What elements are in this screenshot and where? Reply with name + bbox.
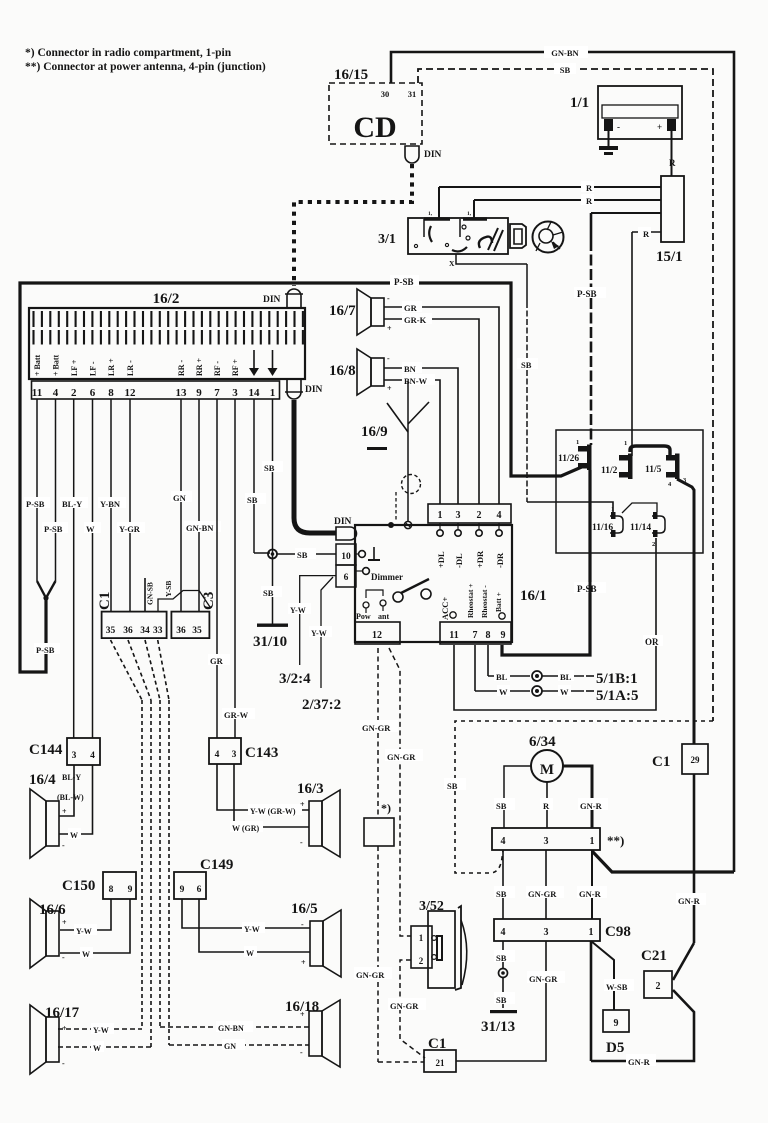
dashed wire GN-BN to 16/18 — [160, 1026, 309, 1028]
wire Y-W C149 to 16/5 — [182, 899, 310, 928]
junction SB wires — [268, 550, 277, 559]
svg-text:4: 4 — [497, 510, 502, 521]
svg-text:16/1: 16/1 — [520, 588, 547, 604]
svg-text:C150: C150 — [62, 878, 95, 894]
svg-text:33: 33 — [153, 626, 163, 636]
wire W C149 to 16/5 — [199, 899, 310, 952]
svg-text:16/3: 16/3 — [297, 781, 324, 797]
dashed wire W to 16/17 — [58, 1046, 151, 1048]
dashed wire trunk 3 — [159, 700, 161, 1027]
connector C144 — [67, 738, 100, 765]
wire SB C98 to ground 31/13 — [502, 941, 504, 968]
svg-text:36: 36 — [176, 626, 186, 636]
wire P-SB main feed from radio 16/2 — [20, 283, 584, 672]
16/1 pin 10 box — [336, 544, 356, 565]
svg-text:(BL-W): (BL-W) — [57, 793, 84, 802]
wire GN pin 13 to C3 — [180, 399, 182, 611]
ground 31/13 — [490, 1010, 517, 1013]
thick wire 16/2 DIN to 16/1 DIN — [294, 400, 336, 533]
wire GN-R C1-29 down — [693, 774, 696, 943]
dashed wire trunk 4 — [168, 700, 170, 1045]
wire BN-W 16/8 to 16/1 pin 1 — [384, 380, 440, 504]
wire SB antenna signal boundary (dashed) — [455, 721, 713, 873]
wire BN 16/8 to 16/1 pin 3 — [384, 368, 458, 504]
svg-text:W-SB: W-SB — [606, 982, 628, 992]
svg-text:R: R — [669, 158, 676, 168]
svg-text:W: W — [246, 949, 254, 958]
label P-SB pin11 wire — [24, 497, 50, 508]
connector C150 — [103, 872, 136, 899]
svg-text:31/13: 31/13 — [481, 1019, 515, 1035]
svg-text:2: 2 — [477, 510, 482, 521]
svg-text:W: W — [93, 1044, 101, 1053]
svg-text:GR: GR — [210, 656, 224, 666]
svg-text:BL-Y: BL-Y — [62, 773, 81, 782]
svg-text:1,: 1, — [428, 211, 433, 217]
svg-text:+DR: +DR — [475, 550, 485, 568]
svg-text:W: W — [86, 524, 95, 534]
junction dot on 16/1 top — [388, 522, 394, 528]
svg-text:C144: C144 — [29, 742, 63, 758]
connector C1 — [102, 612, 167, 639]
svg-text:9: 9 — [180, 885, 185, 895]
svg-text:8: 8 — [108, 387, 114, 399]
svg-text:Rheostat -: Rheostat - — [480, 585, 489, 618]
svg-text:P-SB: P-SB — [44, 524, 63, 534]
DIN connector below CD — [405, 146, 419, 163]
svg-text:12: 12 — [372, 630, 382, 641]
svg-text:RF +: RF + — [231, 359, 240, 376]
svg-text:16/15: 16/15 — [334, 67, 368, 83]
svg-text:Y-W (GR-W): Y-W (GR-W) — [250, 807, 296, 816]
antenna terminal on 16/1 — [404, 521, 411, 528]
svg-text:15/1: 15/1 — [656, 249, 683, 265]
svg-text:RR +: RR + — [195, 357, 204, 376]
wire SB pin 14 — [253, 399, 255, 553]
wire GN-GR dashed to 3/52 (right) — [389, 648, 411, 936]
svg-text:1: 1 — [270, 387, 276, 399]
svg-text:-: - — [300, 838, 303, 847]
wire Y-SB link C1 pin 33 to C3 — [158, 591, 210, 612]
wire SB junction to 16/1 pin 10 — [277, 553, 336, 555]
wire Y-GR pin 12 to C1 — [129, 399, 131, 611]
svg-text:W: W — [82, 950, 90, 959]
svg-text:14: 14 — [249, 387, 261, 399]
svg-text:GN: GN — [173, 493, 187, 503]
label P-SB pin4 wire — [42, 522, 68, 533]
wire Y-W C150 to 16/6 — [60, 899, 111, 930]
svg-text:3: 3 — [72, 751, 77, 761]
ground symbol at pin 10 — [359, 551, 366, 558]
svg-text:DIN: DIN — [424, 150, 442, 160]
wire GN-R out of C21 — [673, 990, 694, 1018]
wire lamp 11/2 to 11/5 — [630, 446, 670, 455]
wire +Batt pin 11 — [36, 399, 38, 581]
lamp 11/16 — [611, 512, 616, 519]
speaker 16/8 — [371, 358, 384, 386]
antenna motor 6/34 — [531, 750, 563, 782]
svg-text:GN-SB: GN-SB — [146, 582, 155, 605]
svg-text:3: 3 — [232, 750, 237, 760]
wire Y-W(GR-W) C143 to 16/3 — [217, 764, 309, 810]
wire SB (CD to antenna, dashed) — [418, 69, 713, 721]
svg-text:LF -: LF - — [89, 361, 98, 376]
wire W 16/4 to C144 — [59, 765, 93, 834]
wire SB pin 1 to ground 31/10 — [272, 399, 274, 624]
svg-text:GR-K: GR-K — [404, 315, 427, 325]
svg-text:12: 12 — [125, 387, 137, 399]
svg-text:4: 4 — [53, 387, 59, 399]
svg-text:C149: C149 — [200, 857, 233, 873]
battery 1/1 — [598, 86, 682, 139]
svg-text:Y-W: Y-W — [244, 925, 260, 934]
svg-text:R: R — [643, 229, 650, 239]
svg-text:P-SB: P-SB — [577, 584, 597, 594]
wire BL-Y C144 to 16/4 — [59, 765, 74, 816]
wire GN-GR dashed 3/52 to C1-21 — [400, 960, 425, 1058]
svg-text:1/1: 1/1 — [570, 95, 589, 111]
svg-text:1: 1 — [419, 933, 424, 943]
svg-text:**) Connector at power antenna: **) Connector at power antenna, 4-pin (j… — [25, 61, 266, 73]
radio 16/2 outline — [29, 308, 305, 379]
wire Y-W to 3/2:4 — [300, 576, 336, 665]
svg-text:4: 4 — [668, 481, 672, 488]
svg-text:+: + — [62, 807, 67, 816]
svg-text:C98: C98 — [605, 924, 631, 940]
svg-text:+: + — [62, 918, 67, 927]
svg-text:1: 1 — [576, 439, 579, 446]
svg-text:11/16: 11/16 — [592, 523, 613, 533]
svg-text:OR: OR — [645, 637, 659, 647]
wire GN-BN bottom to antenna connector pin 1 — [592, 851, 734, 872]
svg-text:+: + — [387, 384, 392, 393]
speaker 16/7 — [371, 298, 384, 326]
svg-text:*): *) — [381, 801, 391, 815]
svg-text:M: M — [540, 762, 554, 778]
svg-text:GN-GR: GN-GR — [528, 889, 557, 899]
svg-text:W: W — [499, 687, 508, 697]
svg-text:9: 9 — [196, 387, 202, 399]
svg-text:31/10: 31/10 — [253, 634, 287, 650]
svg-text:34: 34 — [140, 626, 150, 636]
wire BL to 5/1B:1 — [487, 645, 489, 676]
svg-text:35: 35 — [106, 626, 116, 636]
lamp 11/26 — [578, 446, 589, 452]
wire GN-BN pin 9 to C3 — [198, 399, 200, 611]
svg-text:RR -: RR - — [177, 359, 186, 376]
wire Y-BN pin 8 to C1 — [110, 399, 112, 611]
svg-text:C1: C1 — [428, 1036, 446, 1052]
svg-text:16/6: 16/6 — [39, 902, 66, 918]
svg-text:W (GR): W (GR) — [232, 824, 260, 833]
connector C3 — [171, 612, 209, 639]
svg-text:7: 7 — [473, 630, 478, 641]
svg-text:5/1A:5: 5/1A:5 — [596, 688, 639, 704]
svg-text:11: 11 — [32, 387, 42, 399]
svg-text:-DL: -DL — [454, 553, 464, 568]
svg-text:16/4: 16/4 — [29, 772, 56, 788]
svg-text:3: 3 — [456, 510, 461, 521]
svg-text:16/8: 16/8 — [329, 363, 356, 379]
speaker 16/5 — [310, 921, 323, 966]
svg-text:29: 29 — [691, 755, 701, 765]
svg-text:GN-R: GN-R — [628, 1057, 651, 1067]
wire SB to dimmer lamp 11/16 — [527, 502, 613, 512]
svg-text:C3: C3 — [201, 592, 217, 610]
svg-text:11: 11 — [449, 630, 458, 641]
svg-text:1: 1 — [590, 836, 595, 847]
svg-text:6/34: 6/34 — [529, 734, 556, 750]
dashed wires C1 to rear speakers — [111, 640, 143, 700]
svg-text:16/9: 16/9 — [361, 424, 388, 440]
svg-text:8: 8 — [109, 885, 114, 895]
antenna trimmer (dashed circle) — [402, 475, 421, 494]
svg-text:C1: C1 — [97, 592, 113, 610]
svg-text:BL-Y: BL-Y — [62, 499, 82, 509]
svg-text:4: 4 — [501, 927, 506, 938]
speaker 16/17 — [46, 1017, 59, 1062]
svg-text:1: 1 — [438, 510, 443, 521]
wire GN-SB stub at C1 pin 34 — [144, 578, 146, 611]
dashed stub from trimmer — [395, 492, 397, 520]
svg-text:LR +: LR + — [107, 358, 116, 376]
svg-text:R: R — [586, 183, 593, 193]
ignition switch rotor — [533, 222, 564, 253]
svg-text:GN: GN — [224, 1042, 236, 1051]
radio 16/1 box — [355, 525, 512, 642]
connector C21 pin 2 — [644, 971, 672, 998]
svg-text:SB: SB — [560, 65, 571, 75]
svg-text:CD: CD — [353, 111, 396, 144]
16/1 pin 6 box — [336, 565, 356, 587]
svg-text:ACC+: ACC+ — [440, 597, 450, 620]
radio 16/2 pin-number strip — [32, 381, 280, 399]
wire GN-R strip to C98 — [591, 850, 593, 919]
speaker 16/3 — [309, 801, 322, 846]
svg-text:1: 1 — [611, 506, 614, 513]
wire +Batt pin 4 — [55, 399, 57, 581]
svg-text:X: X — [449, 259, 455, 268]
svg-text:BL: BL — [560, 672, 572, 682]
svg-text:36: 36 — [123, 626, 133, 636]
lamp 11/2 — [619, 455, 630, 461]
connector C98 — [494, 919, 600, 941]
wire P-SB through 11/26 — [589, 470, 592, 655]
wire SB from X to lamp cluster (dashed) — [526, 264, 528, 302]
svg-text:4: 4 — [90, 751, 95, 761]
svg-text:16/7: 16/7 — [329, 303, 356, 319]
wire R ignition feed 1 — [439, 186, 661, 188]
antenna connector strip ** — [492, 828, 600, 850]
svg-text:16/5: 16/5 — [291, 901, 318, 917]
junction of +Batt wires — [43, 595, 48, 600]
svg-text:DIN: DIN — [305, 385, 323, 395]
antenna 16/9 — [407, 381, 409, 521]
svg-text:SB: SB — [496, 889, 507, 899]
svg-text:+: + — [300, 1010, 305, 1019]
wire to P-SB vertical — [591, 212, 661, 214]
svg-text:GN-GR: GN-GR — [390, 1001, 419, 1011]
svg-text:4: 4 — [215, 750, 220, 760]
fuse box 15/1 — [661, 176, 684, 242]
svg-text:1,: 1, — [467, 211, 472, 217]
svg-text:Y-W: Y-W — [76, 927, 92, 936]
svg-text:6: 6 — [344, 573, 349, 583]
svg-text:21: 21 — [436, 1058, 446, 1068]
ground 31/10 — [257, 624, 288, 627]
svg-text:2: 2 — [652, 541, 655, 548]
svg-text:-: - — [387, 354, 390, 363]
svg-text:Y-BN: Y-BN — [100, 499, 121, 509]
svg-text:W: W — [70, 831, 78, 840]
svg-text:Rheostat +: Rheostat + — [466, 584, 475, 618]
wire W C150 to 16/6 — [60, 899, 130, 953]
wire GN-GR dashed below *) connector — [377, 846, 379, 1062]
svg-text:2: 2 — [71, 387, 77, 399]
svg-text:GN-GR: GN-GR — [362, 723, 391, 733]
16/1 pin 12 box — [355, 622, 400, 644]
wire 11/16 to 11/14 — [622, 503, 657, 513]
lamp 11/5 — [666, 455, 677, 461]
svg-text:3: 3 — [544, 836, 549, 847]
svg-text:8: 8 — [486, 630, 491, 641]
svg-text:GN-R: GN-R — [678, 896, 701, 906]
wire P-SB fuse to lamp 11/26 (dashed) — [590, 213, 593, 240]
svg-text:9: 9 — [614, 1018, 619, 1029]
speaker 16/4 — [46, 801, 59, 846]
svg-text:R: R — [586, 196, 593, 206]
dotted wire from CD DIN to 16/2 DIN — [294, 164, 412, 286]
svg-text:GN-BN: GN-BN — [218, 1024, 244, 1033]
radio 16/2 connector comb — [34, 311, 303, 345]
dashed wire trunk 2 — [150, 700, 152, 1047]
svg-text:**): **) — [607, 833, 624, 848]
wire OR pin 11 to lamp 11/14 — [454, 538, 656, 710]
svg-text:R: R — [543, 801, 550, 811]
svg-text:3/2:4: 3/2:4 — [279, 671, 311, 687]
connector C149 — [174, 872, 206, 899]
svg-text:C143: C143 — [245, 745, 278, 761]
svg-text:+: + — [300, 800, 305, 809]
svg-text:11/14: 11/14 — [630, 523, 651, 533]
svg-text:Pow: Pow — [356, 612, 371, 621]
wire GR 16/7 to 16/1 pin 4 — [384, 307, 499, 504]
wire GN-R bottom run — [591, 1018, 694, 1061]
wire P-SB 16/1 pin 9 feed — [502, 470, 590, 655]
svg-text:2: 2 — [656, 981, 661, 992]
svg-text:SB: SB — [521, 360, 532, 370]
wire GN-GR C98 to C1-21 — [456, 941, 546, 1061]
svg-text:GN-R: GN-R — [579, 889, 602, 899]
svg-text:LF +: LF + — [70, 359, 79, 376]
ignition key bezel — [510, 224, 526, 248]
16/1 top pin strip — [428, 504, 511, 523]
wire W to 5/1A:5 — [474, 645, 476, 691]
svg-text:GR: GR — [404, 303, 418, 313]
svg-text:-: - — [62, 953, 65, 962]
svg-text:13: 13 — [176, 387, 188, 399]
svg-text:P-SB: P-SB — [26, 499, 45, 509]
svg-text:11/5: 11/5 — [645, 465, 662, 475]
svg-text:Batt +: Batt + — [494, 592, 503, 612]
label P-SB merged wire — [34, 643, 60, 654]
speaker 16/6 — [46, 911, 59, 956]
CD player box 16/15 — [329, 83, 422, 144]
svg-text:3/1: 3/1 — [378, 232, 396, 247]
wire GN-GR dashed from 16/1 pin 12 (left) — [377, 648, 379, 818]
svg-text:LR -: LR - — [126, 360, 135, 376]
svg-text:DIN: DIN — [334, 517, 352, 527]
svg-text:D5: D5 — [606, 1040, 624, 1056]
dashed wire Y-W to 16/17 — [58, 1028, 142, 1030]
svg-text:10: 10 — [341, 552, 351, 562]
wire W-SB C98 to D5 — [591, 941, 614, 1010]
svg-text:9: 9 — [501, 630, 506, 641]
dashed wire trunk 1 — [141, 700, 143, 1029]
svg-text:+ Batt: + Batt — [33, 354, 42, 376]
svg-text:4: 4 — [501, 836, 506, 847]
svg-text:SB: SB — [247, 495, 258, 505]
16/1 speaker pin circles — [437, 530, 443, 536]
ground at battery negative — [599, 146, 618, 150]
wire GN-R into C21 — [673, 943, 694, 980]
wire W pin 6 to C144 — [92, 399, 94, 738]
svg-text:5/1B:1: 5/1B:1 — [596, 671, 638, 687]
svg-text:Y-W: Y-W — [290, 606, 306, 615]
wire from 3/1 terminal to R feed 2 — [473, 200, 475, 219]
svg-text:1: 1 — [624, 440, 627, 447]
wire W(GR) C143 to 16/3 — [234, 764, 309, 827]
wire GR pin 7 to C143 — [216, 399, 218, 738]
svg-text:GN-GR: GN-GR — [529, 974, 558, 984]
wire from 3/1 terminal to R feed 1 — [438, 187, 440, 219]
svg-text:GN-BN: GN-BN — [551, 48, 579, 58]
svg-text:BN: BN — [404, 364, 417, 374]
connector C143 — [209, 738, 241, 764]
svg-text:-: - — [301, 920, 304, 929]
wire GN-BN battery feed (top) — [391, 52, 734, 872]
wire GN-R from lamp 11/5 — [677, 479, 694, 744]
speaker 16/18 — [309, 1011, 322, 1056]
svg-text:SB: SB — [496, 953, 507, 963]
svg-text:16/17: 16/17 — [45, 1005, 80, 1021]
svg-text:+ Batt: + Batt — [52, 354, 61, 376]
svg-text:-: - — [617, 122, 620, 132]
svg-text:ant: ant — [378, 612, 389, 621]
svg-text:+DL: +DL — [436, 551, 446, 568]
wire SB motor left — [504, 766, 531, 828]
DIN connector top of 16/2 — [287, 289, 301, 308]
wire GN-R motor right — [563, 766, 592, 828]
connector D5 pin 9 — [603, 1010, 629, 1032]
svg-text:GN-BN: GN-BN — [186, 523, 214, 533]
svg-text:7: 7 — [214, 387, 220, 399]
connector C1 pin 21 — [424, 1050, 456, 1072]
lamp 11/14 — [653, 512, 658, 519]
wire R motor middle — [546, 782, 548, 828]
wire R to lamp 11/2 — [632, 231, 661, 233]
svg-text:BL: BL — [496, 672, 508, 682]
radio 16/2 ground arrows — [253, 350, 255, 372]
svg-text:P-SB: P-SB — [394, 277, 414, 287]
16/1 bottom pin strip — [440, 622, 511, 644]
wire GR-K 16/7 to 16/1 pin 2 — [384, 319, 479, 504]
svg-text:C1: C1 — [652, 754, 670, 770]
svg-text:GN-R: GN-R — [580, 801, 603, 811]
svg-text:6: 6 — [90, 387, 96, 399]
wire GN-R C98 pin1 down — [590, 941, 593, 1061]
wire GR-W pin 3 to C143 — [234, 399, 236, 738]
